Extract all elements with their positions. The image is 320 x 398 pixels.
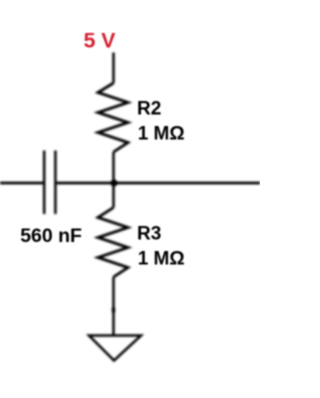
capacitor C right plate (54, 151, 57, 215)
svg-text:5 V: 5 V (84, 29, 116, 52)
resistor R3 (98, 208, 128, 278)
svg-text:1 MΩ: 1 MΩ (138, 124, 185, 145)
ground (89, 336, 141, 361)
svg-text:R2: R2 (137, 99, 161, 120)
resistor R2 (98, 83, 128, 152)
wire node to R3 (112, 183, 115, 208)
wire 5V to R2 (112, 53, 115, 84)
wire left edge to capacitor (0, 182, 43, 185)
wire R2 to node (112, 152, 115, 183)
wire R3 to ground (112, 277, 115, 336)
svg-text:560 nF: 560 nF (20, 225, 82, 247)
svg-text:1 MΩ: 1 MΩ (138, 249, 185, 270)
wire capacitor to right edge (57, 182, 260, 185)
capacitor C left plate (43, 151, 46, 215)
node junction dot (110, 179, 117, 186)
svg-text:R3: R3 (137, 224, 161, 245)
wire junction mark (112, 308, 115, 313)
